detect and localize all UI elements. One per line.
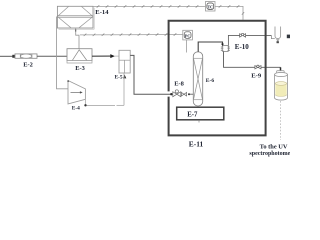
dashed line vial to analyzer (280, 101, 282, 140)
battery-limit box E-11 (169, 21, 266, 136)
heat exchanger E-14 (57, 6, 94, 29)
wire E-5 to valve E-8 (130, 55, 170, 94)
pipe E-14 bottom to E-3 top (76, 28, 79, 49)
svg-text:TC: TC (208, 5, 214, 10)
tank E-7 (177, 107, 224, 122)
funnel vent outlet (275, 27, 281, 44)
signal line TC to box (215, 5, 244, 20)
svg-text:E-8: E-8 (174, 80, 184, 87)
wire E-3 to E-5 with arrow (92, 55, 113, 57)
instrument TC (206, 2, 216, 12)
instrument PC (183, 30, 193, 40)
svg-text:E-11: E-11 (189, 140, 204, 149)
svg-text:spectrophotometer: spectrophotometer (249, 151, 290, 157)
svg-text:E-6: E-6 (206, 78, 215, 84)
valve E-8 assembly (170, 90, 193, 97)
wire fan outlet to E-5 bottom (84, 99, 86, 105)
blower E-3 (67, 49, 92, 63)
svg-text:E-10: E-10 (235, 43, 250, 51)
clipped label at image edge (287, 35, 290, 39)
wire E-2 to E-3 (37, 55, 67, 57)
svg-text:E-5: E-5 (114, 74, 122, 80)
packed column E-4 (193, 52, 202, 106)
svg-text:E-4: E-4 (72, 106, 80, 112)
dryer E-5 (119, 50, 130, 73)
wire E-14 down to fan inlet (57, 17, 69, 89)
pipe column top to condenser E-10 (198, 42, 222, 52)
drain pipe E-10 to sample vial (224, 52, 255, 68)
valve E-9 (255, 65, 261, 69)
condenser E-10 (221, 46, 230, 52)
svg-text:E-9: E-9 (251, 72, 262, 79)
svg-text:E-14: E-14 (95, 9, 109, 16)
signal line to PC (80, 33, 183, 36)
flowmeter E-2 (12, 54, 37, 58)
vent control valve (240, 33, 246, 37)
wire inlet feed (0, 55, 15, 57)
svg-text:PC: PC (185, 33, 190, 38)
fan E-4 (67, 80, 85, 104)
arrow into E-5 bottom (123, 75, 126, 79)
svg-text:E-3: E-3 (75, 65, 85, 72)
vent pipe E-10 to funnel (228, 35, 239, 45)
signal PC stem (186, 40, 188, 53)
signal line E-14 to TC (93, 5, 206, 7)
svg-text:To the UV: To the UV (260, 144, 288, 151)
sample vial (275, 71, 288, 100)
svg-text:E-7: E-7 (187, 111, 198, 118)
svg-text:E-2: E-2 (23, 61, 33, 68)
